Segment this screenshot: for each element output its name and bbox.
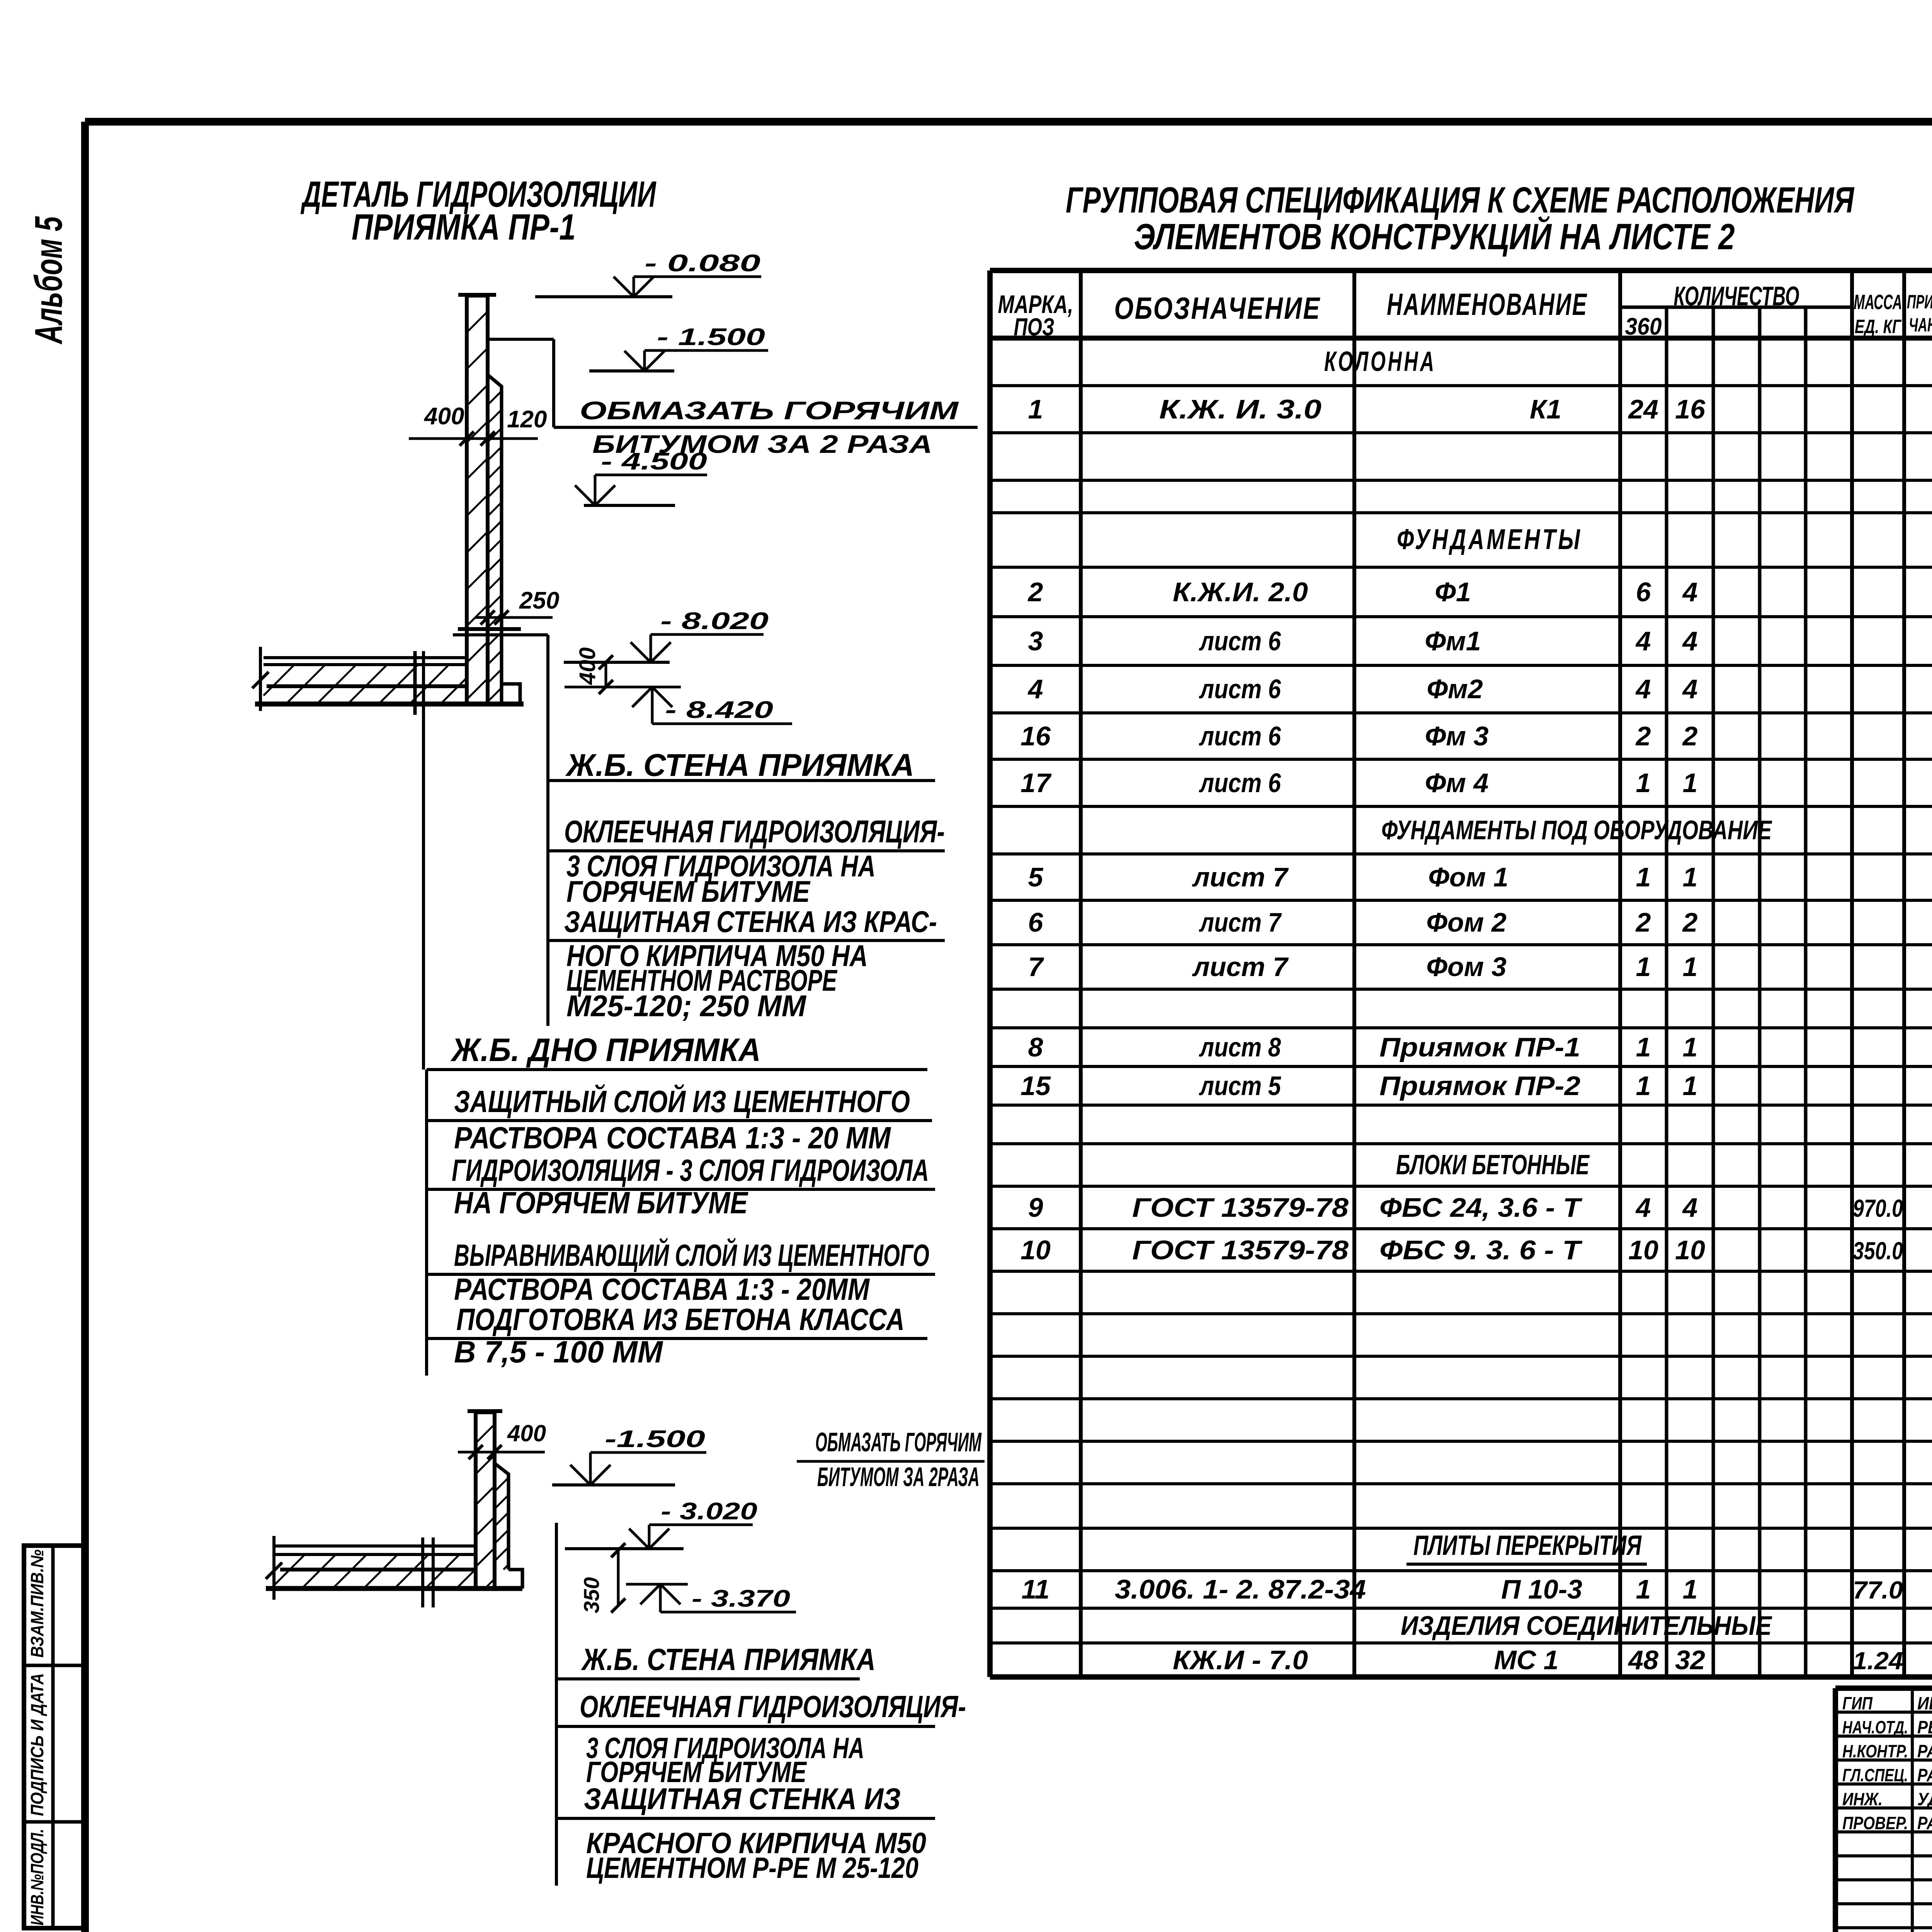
leader line from wall to text block 1 [488, 339, 554, 427]
svg-text:ИВАНОВА: ИВАНОВА [1917, 1693, 1932, 1713]
svg-text:ИЗДЕЛИЯ СОЕДИНИТЕЛЬНЫЕ: ИЗДЕЛИЯ СОЕДИНИТЕЛЬНЫЕ [1401, 1611, 1772, 1641]
pit floor slab (hatched) detail 1 [252, 647, 524, 711]
svg-text:РЫБКИНА: РЫБКИНА [1917, 1717, 1932, 1737]
svg-text:РАСТВОРА СОСТАВА 1:3 -: РАСТВОРА СОСТАВА 1:3 - 20 ММ [454, 1121, 891, 1155]
svg-text:9: 9 [1028, 1192, 1043, 1223]
dimension 400 (detail 2) [458, 1420, 546, 1459]
vertical dimension 350 (detail 2) [579, 1543, 625, 1613]
svg-text:350.0: 350.0 [1853, 1237, 1903, 1265]
svg-text:Фом 3: Фом 3 [1426, 952, 1507, 982]
svg-text:НАЧ.ОТД.: НАЧ.ОТД. [1842, 1717, 1908, 1737]
detail title: Деталь гидроизоляции приямка ПР-1 [301, 174, 656, 248]
svg-text:ЕД. КГ: ЕД. КГ [1855, 316, 1902, 337]
svg-text:1: 1 [1683, 1032, 1698, 1062]
svg-text:П 10-3: П 10-3 [1501, 1574, 1582, 1604]
spec table title [1066, 180, 1854, 257]
svg-text:ПОДПИСЬ И ДАТА: ПОДПИСЬ И ДАТА [27, 1673, 47, 1816]
svg-text:лист 7: лист 7 [1192, 952, 1289, 982]
svg-text:400: 400 [423, 403, 464, 430]
svg-text:24: 24 [1628, 394, 1658, 424]
svg-text:17: 17 [1020, 768, 1052, 798]
svg-text:ГРУППОВАЯ СПЕЦИФИКАЦИЯ К: ГРУППОВАЯ СПЕЦИФИКАЦИЯ К СХЕМЕ РАСПОЛОЖЕ… [1066, 180, 1854, 221]
svg-text:ПЛИТЫ ПЕРЕКРЫТИЯ: ПЛИТЫ ПЕРЕКРЫТИЯ [1413, 1530, 1642, 1561]
svg-text:1: 1 [1683, 768, 1698, 798]
svg-text:ФУНДАМЕНТЫ ПОД ОБОРУДОВАНИЕ: ФУНДАМЕНТЫ ПОД ОБОРУДОВАНИЕ [1381, 815, 1772, 845]
svg-text:5: 5 [1028, 862, 1044, 892]
svg-text:1: 1 [1636, 1071, 1651, 1101]
svg-text:Ж.Б. СТЕНА ПРИЯМКА: Ж.Б. СТЕНА ПРИЯМКА [581, 1642, 876, 1677]
vertical lines of protective wall crossing slab [415, 651, 423, 1070]
svg-text:6: 6 [1636, 577, 1651, 607]
svg-text:ЗАЩИТНЫЙ СЛОЙ ИЗ ЦЕМЕНТНО: ЗАЩИТНЫЙ СЛОЙ ИЗ ЦЕМЕНТНОГО [454, 1084, 910, 1119]
svg-text:970.0: 970.0 [1853, 1194, 1903, 1222]
svg-text:РАШЕВСКИЙ: РАШЕВСКИЙ [1917, 1765, 1932, 1785]
svg-text:ФБС 9. 3. 6 - Т: ФБС 9. 3. 6 - Т [1379, 1235, 1583, 1265]
svg-text:ЗАЩИТНАЯ СТЕНКА ИЗ КРАС-: ЗАЩИТНАЯ СТЕНКА ИЗ КРАС- [564, 905, 937, 939]
svg-text:4: 4 [1682, 1192, 1698, 1223]
svg-text:Фм 3: Фм 3 [1425, 721, 1489, 751]
svg-text:- 3.370: - 3.370 [692, 1585, 790, 1612]
svg-text:4: 4 [1635, 674, 1651, 704]
svg-text:ОБМАЗАТЬ ГОРЯЧИМ: ОБМАЗАТЬ ГОРЯЧИМ [815, 1427, 982, 1457]
svg-text:ФУНДАМЕНТЫ: ФУНДАМЕНТЫ [1397, 523, 1582, 555]
svg-text:ВЫРАВНИВАЮЩИЙ СЛОЙ ИЗ ЦЕМЕНТН: ВЫРАВНИВАЮЩИЙ СЛОЙ ИЗ ЦЕМЕНТНОГО [454, 1238, 929, 1272]
svg-text:4: 4 [1027, 674, 1043, 704]
spec table header text [998, 281, 1932, 341]
wall lines crossing slab (detail 2) [423, 1537, 433, 1607]
svg-text:Фом 2: Фом 2 [1426, 907, 1507, 937]
svg-text:- 1.500: - 1.500 [657, 324, 765, 350]
svg-text:1: 1 [1636, 952, 1651, 982]
title block: signature table texts [1842, 1693, 1932, 1833]
spec table data rows [1020, 346, 1903, 1675]
svg-text:1: 1 [1636, 1574, 1651, 1604]
svg-text:ОКЛЕЕЧНАЯ ГИДРОИЗОЛЯЦИЯ-: ОКЛЕЕЧНАЯ ГИДРОИЗОЛЯЦИЯ- [564, 814, 945, 849]
svg-text:К1: К1 [1530, 394, 1561, 424]
svg-text:РАШЕВСКИЙ: РАШЕВСКИЙ [1917, 1813, 1932, 1833]
svg-text:1: 1 [1636, 862, 1651, 892]
svg-text:ПОЗ: ПОЗ [1014, 313, 1054, 341]
svg-text:НАИМЕНОВАНИЕ: НАИМЕНОВАНИЕ [1387, 287, 1588, 321]
svg-text:2: 2 [1635, 721, 1651, 751]
svg-text:- 4.500: - 4.500 [601, 448, 707, 475]
svg-text:Ж.Б. СТЕНА ПРИЯМКА: Ж.Б. СТЕНА ПРИЯМКА [565, 748, 914, 783]
svg-text:2: 2 [1635, 907, 1651, 937]
svg-text:ГИДРОИЗОЛЯЦИЯ - 3 СЛОЯ ГИДРОИ: ГИДРОИЗОЛЯЦИЯ - 3 СЛОЯ ГИДРОИЗОЛА [452, 1153, 929, 1187]
svg-text:2: 2 [1682, 721, 1698, 751]
svg-text:3.006. 1- 2. 87.2-34: 3.006. 1- 2. 87.2-34 [1115, 1574, 1366, 1604]
attribute column box (Взам.инв.№ / Подпись и дата / Инв.№подл.) [24, 1546, 85, 1928]
svg-text:ГОСТ 13579-78: ГОСТ 13579-78 [1132, 1235, 1349, 1265]
spec table grid [990, 270, 1932, 1677]
svg-text:120: 120 [507, 406, 547, 433]
svg-text:лист 5: лист 5 [1199, 1071, 1281, 1101]
svg-text:лист 6: лист 6 [1199, 626, 1281, 656]
level mark -0.080 (detail 1) [535, 250, 761, 297]
svg-text:6: 6 [1028, 907, 1044, 937]
svg-text:11: 11 [1022, 1574, 1050, 1604]
svg-text:БЛОКИ БЕТОННЫЕ: БЛОКИ БЕТОННЫЕ [1396, 1150, 1590, 1180]
svg-text:ЭЛЕМЕНТОВ КОНСТРУКЦИЙ: ЭЛЕМЕНТОВ КОНСТРУКЦИЙ НА ЛИСТЕ 2 [1134, 216, 1735, 257]
svg-text:- 0.080: - 0.080 [645, 250, 760, 277]
svg-text:Фм2: Фм2 [1427, 674, 1483, 704]
svg-text:4: 4 [1635, 626, 1651, 656]
dimension 250 (skin, detail 1) [475, 587, 559, 624]
svg-text:400: 400 [507, 1420, 546, 1446]
svg-text:- 8.420: - 8.420 [665, 697, 773, 723]
svg-text:МС 1: МС 1 [1494, 1645, 1558, 1675]
svg-text:ВЗАМ.ПИВ.№: ВЗАМ.ПИВ.№ [27, 1549, 47, 1658]
svg-text:лист 6: лист 6 [1199, 674, 1281, 704]
svg-text:1: 1 [1683, 862, 1698, 892]
svg-text:лист 6: лист 6 [1199, 768, 1281, 798]
svg-text:- 8.020: - 8.020 [660, 608, 769, 634]
svg-text:ГОСТ 13579-78: ГОСТ 13579-78 [1132, 1192, 1349, 1223]
svg-text:ИНВ.№ПОДЛ.: ИНВ.№ПОДЛ. [27, 1829, 47, 1925]
svg-text:ИНЖ.: ИНЖ. [1842, 1789, 1883, 1809]
svg-text:4: 4 [1682, 626, 1698, 656]
svg-text:1: 1 [1028, 394, 1043, 424]
svg-text:НА ГОРЯЧЕМ БИТУМЕ: НА ГОРЯЧЕМ БИТУМЕ [454, 1185, 748, 1220]
heavy lines crossing wall at -8.020 level [453, 629, 548, 635]
svg-text:ЧАНИЕ: ЧАНИЕ [1909, 314, 1932, 336]
level mark -1.500 (detail 2) [552, 1426, 706, 1485]
text block: Ж.Б. дно приямка [427, 1032, 935, 1376]
protective brick skin layer on wall [488, 375, 520, 704]
pit wall cross-section (detail 2) [468, 1411, 509, 1588]
svg-text:ПРИМЕ-: ПРИМЕ- [1907, 291, 1932, 313]
svg-text:ГОРЯЧЕМ БИТУМЕ: ГОРЯЧЕМ БИТУМЕ [566, 874, 811, 908]
svg-text:1.24: 1.24 [1853, 1647, 1903, 1675]
svg-text:КОЛИЧЕСТВО: КОЛИЧЕСТВО [1674, 281, 1799, 311]
svg-text:К.Ж.И. 2.0: К.Ж.И. 2.0 [1173, 577, 1308, 607]
svg-text:360: 360 [1625, 313, 1662, 340]
svg-text:М25-120; 250 ММ: М25-120; 250 ММ [566, 989, 807, 1023]
svg-text:лист 8: лист 8 [1199, 1032, 1281, 1062]
svg-text:Н.КОНТР.: Н.КОНТР. [1842, 1741, 1908, 1761]
svg-text:Фм1: Фм1 [1425, 626, 1481, 656]
floor slab (detail 2) [266, 1536, 522, 1600]
svg-text:ФБС 24, 3.6 - Т: ФБС 24, 3.6 - Т [1379, 1192, 1583, 1223]
svg-text:1: 1 [1683, 952, 1698, 982]
svg-text:4: 4 [1682, 577, 1698, 607]
svg-text:МАССА: МАССА [1854, 291, 1902, 314]
svg-text:лист 7: лист 7 [1199, 907, 1282, 937]
svg-text:1: 1 [1636, 1032, 1651, 1062]
text block: Ж.Б. стена приямка (upper) [548, 635, 945, 1026]
svg-text:ПРИЯМКА ПР-1: ПРИЯМКА ПР-1 [352, 207, 576, 248]
svg-text:2: 2 [1027, 577, 1043, 607]
svg-text:16: 16 [1675, 394, 1706, 424]
svg-text:ПОДГОТОВКА ИЗ БЕТОНА КЛА: ПОДГОТОВКА ИЗ БЕТОНА КЛАССА [456, 1302, 905, 1337]
svg-text:лист 6: лист 6 [1199, 721, 1281, 751]
svg-text:10: 10 [1675, 1235, 1705, 1265]
dimension 400 / 120 (wall thickness, detail 1) [409, 403, 547, 446]
leader to text block 3 [555, 1523, 558, 1886]
svg-text:400: 400 [575, 647, 600, 685]
svg-text:РАСТВОРА СОСТАВА 1:3 - 20М: РАСТВОРА СОСТАВА 1:3 - 20ММ [454, 1272, 870, 1306]
svg-text:1: 1 [1683, 1574, 1698, 1604]
svg-text:1: 1 [1683, 1071, 1698, 1101]
svg-text:В 7,5 - 100 ММ: В 7,5 - 100 ММ [454, 1335, 663, 1369]
note: обмазать горячим битумом за 2 раза (detail 2) [797, 1427, 985, 1492]
svg-text:2: 2 [1682, 907, 1698, 937]
svg-text:10: 10 [1020, 1235, 1051, 1265]
svg-text:Фом 1: Фом 1 [1428, 862, 1509, 892]
svg-text:32: 32 [1675, 1645, 1705, 1675]
svg-text:Приямок ПР-1: Приямок ПР-1 [1379, 1032, 1580, 1062]
level mark -4.500 (detail 1) [575, 448, 707, 505]
svg-text:48: 48 [1628, 1645, 1658, 1675]
svg-text:-1.500: -1.500 [605, 1426, 705, 1452]
level mark -3.020 (detail 2) [565, 1498, 757, 1549]
level mark -8.020 (detail 1) [564, 608, 769, 662]
svg-text:лист 7: лист 7 [1192, 862, 1289, 892]
svg-text:16: 16 [1020, 721, 1051, 751]
svg-text:ОКЛЕЕЧНАЯ ГИДРОИЗОЛЯЦИЯ-: ОКЛЕЕЧНАЯ ГИДРОИЗОЛЯЦИЯ- [580, 1689, 966, 1724]
album label rotated: Альбом 5 [27, 216, 70, 345]
svg-text:4: 4 [1635, 1192, 1651, 1223]
svg-text:ГИП: ГИП [1842, 1693, 1873, 1713]
svg-text:КОЛОННА: КОЛОННА [1324, 346, 1436, 377]
svg-text:350: 350 [579, 1577, 604, 1613]
svg-text:7: 7 [1028, 952, 1044, 982]
svg-text:4: 4 [1682, 674, 1698, 704]
svg-text:Ж.Б. ДНО ПРИЯМКА: Ж.Б. ДНО ПРИЯМКА [450, 1032, 761, 1068]
svg-text:Приямок ПР-2: Приямок ПР-2 [1379, 1071, 1580, 1101]
svg-text:К.Ж. И. 3.0: К.Ж. И. 3.0 [1159, 394, 1321, 424]
svg-text:ОБОЗНАЧЕНИЕ: ОБОЗНАЧЕНИЕ [1114, 291, 1321, 325]
svg-text:ЗАЩИТНАЯ СТЕНКА ИЗ: ЗАЩИТНАЯ СТЕНКА ИЗ [584, 1782, 901, 1816]
svg-text:БИТУМОМ ЗА 2РАЗА: БИТУМОМ ЗА 2РАЗА [817, 1462, 980, 1492]
level mark -1.500 (detail 1) [589, 324, 768, 371]
svg-text:- 3.020: - 3.020 [661, 1498, 757, 1525]
note: обмазать горячим битумом за 2 раза (detail 1) [554, 396, 978, 458]
svg-text:УДАЛОВА: УДАЛОВА [1917, 1789, 1932, 1809]
svg-text:Ф1: Ф1 [1435, 577, 1471, 607]
svg-text:15: 15 [1020, 1071, 1051, 1101]
title block: outer and signature grid [1835, 1688, 1932, 1932]
svg-text:КЖ.И - 7.0: КЖ.И - 7.0 [1173, 1645, 1308, 1675]
svg-text:3: 3 [1028, 626, 1043, 656]
svg-text:8: 8 [1028, 1032, 1043, 1062]
svg-text:ГЛ.СПЕЦ.: ГЛ.СПЕЦ. [1842, 1765, 1908, 1785]
svg-text:ЦЕМЕНТНОМ Р-РЕ М 25-120: ЦЕМЕНТНОМ Р-РЕ М 25-120 [586, 1852, 918, 1884]
svg-text:ОБМАЗАТЬ ГОРЯЧИМ: ОБМАЗАТЬ ГОРЯЧИМ [580, 396, 959, 425]
vertical dimension 400 between -8.020 and -8.420 [575, 647, 613, 694]
svg-text:ПРОВЕР.: ПРОВЕР. [1842, 1813, 1908, 1833]
level mark -8.420 (detail 1) [565, 687, 792, 724]
svg-text:Альбом 5: Альбом 5 [27, 216, 70, 345]
svg-text:77.0: 77.0 [1853, 1576, 1903, 1604]
text block: Ж.Б. стена приямка (lower) [556, 1642, 966, 1884]
pit wall cross-section (concrete wall, hatched) [458, 295, 496, 704]
svg-text:РАШЕВСКИЙ: РАШЕВСКИЙ [1917, 1741, 1932, 1761]
svg-text:1: 1 [1636, 768, 1651, 798]
svg-text:250: 250 [519, 587, 559, 614]
svg-text:Фм 4: Фм 4 [1425, 768, 1489, 798]
svg-text:10: 10 [1628, 1235, 1658, 1265]
level mark -3.370 (detail 2, arrow up) [626, 1584, 796, 1612]
